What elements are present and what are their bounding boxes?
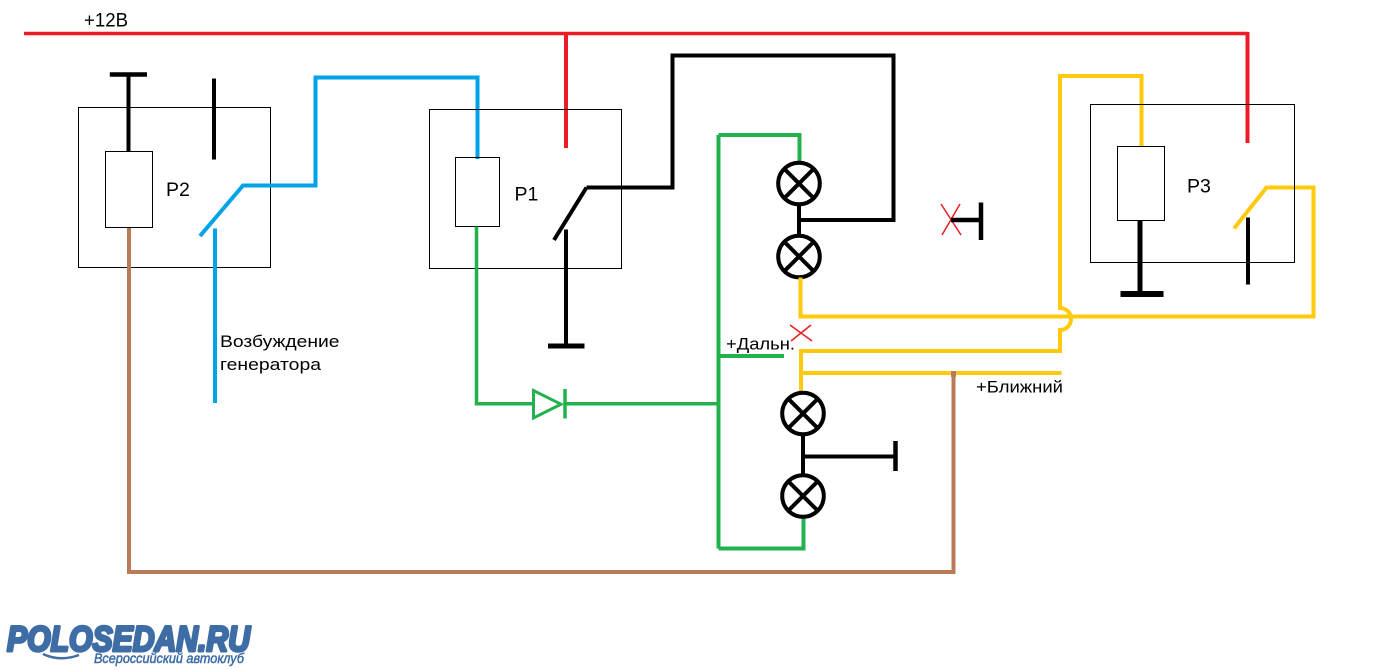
svg-text:Возбуждение: Возбуждение [220,332,340,351]
wire yellow from lamp H2 to P3 switch [801,188,1314,317]
switch arm P2 (blue) and wire to relay P1 coil [200,78,478,237]
svg-text:P2: P2 [166,179,190,201]
wire green bottom to lamp H4 [719,518,804,549]
pin P3 coil to ground [1138,221,1143,294]
relay P3 box [1091,105,1295,263]
pin P3 switch common [1246,218,1250,285]
ground bar under P3 [1121,291,1164,297]
logo swoosh [43,654,79,658]
wire green from P1 coil to diode [477,227,533,404]
wire yellow from P3 coil with hop over crossing [801,76,1142,393]
wire brown from P2 coil to +Ближний net [129,228,954,572]
svg-text:+Дальн.: +Дальн. [726,336,795,354]
pin P2 coil terminal with T-bar [110,75,147,152]
wire green to lamp H1 top [719,135,800,162]
pin P2 second terminal [212,79,216,160]
lamp H4 [782,475,824,517]
X mark red over +Дальн [790,325,812,341]
wire green from diode to lamp net [566,402,719,406]
svg-text:+12В: +12В [84,11,128,32]
wire black branch to terminal [803,455,896,459]
wire blue pivot to generator excitation [213,229,217,404]
lamp H3 [782,393,824,435]
wire link lamp H1 to lamp H2 [797,205,801,236]
wire black from P1 switch to lamps [587,56,894,221]
svg-text:генератора: генератора [220,355,322,374]
relay P1 box [430,110,622,269]
lamp H2 [778,236,820,278]
logo POLOSEDAN.RU [7,620,251,666]
relay P3 coil [1118,147,1165,221]
wire red branch to relay P1 [564,35,568,148]
wire green stub +Дальн [719,354,785,358]
ground bar under P1 [548,344,585,349]
relay P2 box [79,108,271,268]
svg-text:+Ближний: +Ближний [976,379,1063,397]
switch arm P1 (black) [554,188,587,241]
terminal bar right of lamps H3-H4 [893,441,898,471]
relay P1 coil [456,158,500,227]
wire green main vertical [717,135,721,549]
relay P2 coil [106,152,153,228]
wire yellow stub +Ближний [801,371,1062,375]
junction brown cap on +Ближний [951,371,956,377]
wire link lamp H3 to lamp H4 [801,435,805,476]
terminal T near X mark [951,203,981,241]
pin P1 common terminal [564,230,568,345]
svg-text:P1: P1 [515,184,539,206]
wire +12V rail (red) [24,32,1248,35]
diode VD1 (green) [534,389,566,419]
X mark red (disconnected terminal) [941,204,961,235]
svg-text:P3: P3 [1187,176,1211,198]
lamp H1 [778,163,820,205]
svg-text:Всероссийский автоклуб: Всероссийский автоклуб [94,651,244,666]
